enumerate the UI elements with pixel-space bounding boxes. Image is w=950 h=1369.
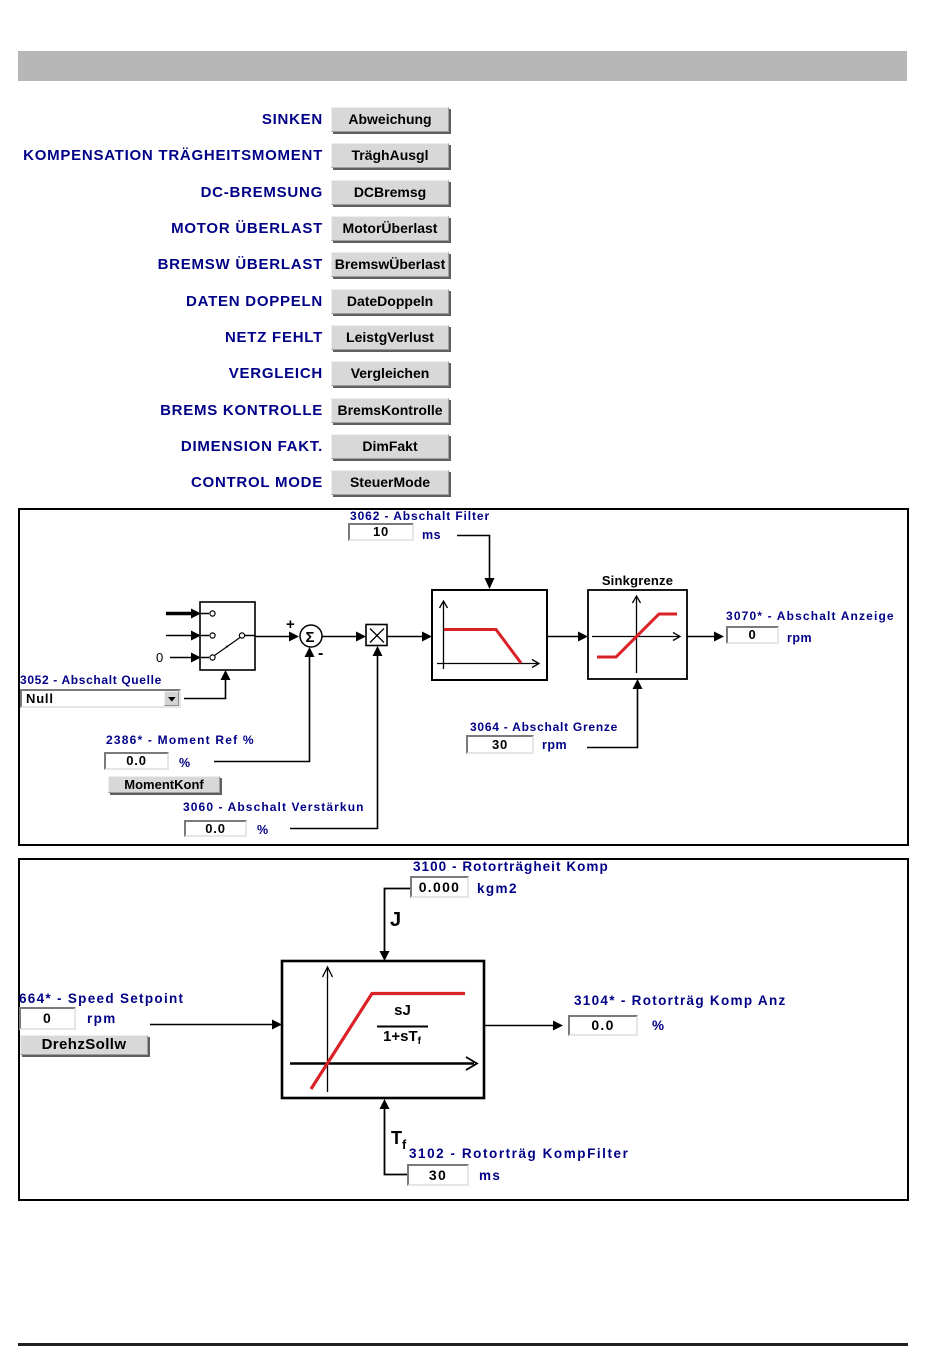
label 3064 - Abschalt Grenze xyxy=(470,720,618,734)
comp v axis xyxy=(327,968,329,1092)
sink red limiter curve xyxy=(597,614,677,657)
unit kgm2 xyxy=(477,881,518,896)
diagram box 2 frame xyxy=(18,858,909,1201)
row label CONTROL MODE xyxy=(0,470,323,495)
row label BREMSW ÜBERLAST xyxy=(0,252,323,277)
field 3062 value 10 xyxy=(348,523,414,541)
switch output stub xyxy=(245,635,256,637)
row label SINKEN xyxy=(0,107,323,132)
label J xyxy=(390,909,401,932)
row label BREMS KONTROLLE xyxy=(0,398,323,423)
unit rpm xyxy=(542,738,567,752)
unit % xyxy=(652,1018,665,1033)
button DrehzSollw xyxy=(20,1035,148,1055)
filter v axis xyxy=(443,602,445,669)
button BremswÜberlast xyxy=(331,252,449,277)
row label NETZ FEHLT xyxy=(0,325,323,350)
field 2386 value 0.0 xyxy=(104,752,169,770)
switch block S1 xyxy=(200,602,255,670)
label 3062 - Abschalt Filter xyxy=(350,509,490,523)
button BremsKontrolle xyxy=(331,398,449,423)
wire 664 speed setpoint to comp block xyxy=(150,1024,272,1026)
unit ms xyxy=(479,1168,501,1183)
wire 3100 J to comp block top xyxy=(385,889,411,958)
unit ms xyxy=(422,528,441,542)
formula sJ / (1+sTf) xyxy=(377,1002,428,1019)
wire comp block to 3104 output xyxy=(484,1025,553,1027)
wire multiplier to filter xyxy=(387,636,422,638)
switch input 1 contact xyxy=(210,611,215,616)
wire 3064 to sink block bottom xyxy=(587,683,638,748)
switch input 2 contact xyxy=(210,633,215,638)
unit rpm xyxy=(87,1011,117,1026)
button Abweichung xyxy=(331,107,449,132)
label 664* - Speed Setpoint xyxy=(19,991,184,1006)
field 3070 value 0 xyxy=(726,626,779,644)
row label KOMPENSATION TRÄGHEITSMOMENT xyxy=(0,143,323,168)
comp block F3 xyxy=(282,961,484,1098)
label 3100 - Rotorträgheit Komp xyxy=(413,859,609,874)
label 3104* - Rotorträg Komp Anz xyxy=(574,993,787,1008)
switch input 3 contact xyxy=(210,655,215,660)
unit rpm xyxy=(787,631,812,645)
comp h axis xyxy=(290,1062,474,1065)
svg-text:-: - xyxy=(318,645,323,662)
switch input 3 wire xyxy=(170,657,191,659)
combobox dropdown button xyxy=(164,691,179,706)
switch input 2 wire xyxy=(166,635,191,637)
filter block F1 xyxy=(432,590,547,680)
summer U1 xyxy=(300,625,322,647)
row label VERGLEICH xyxy=(0,361,323,386)
field 3060 value 0.0 xyxy=(184,820,247,837)
svg-text:0: 0 xyxy=(156,650,163,665)
wire 3102 Tf to comp block bottom xyxy=(385,1102,408,1175)
wire 3062 ms to filter block xyxy=(457,536,490,587)
label 3060 - Abschalt Verstärkun xyxy=(183,800,365,814)
svg-text:+: + xyxy=(286,616,295,633)
label 2386* - Moment Ref % xyxy=(106,733,255,747)
field 3100 value 0.000 xyxy=(410,876,469,898)
sink h axis xyxy=(592,636,679,638)
sink v axis xyxy=(636,596,638,673)
unit % xyxy=(179,756,191,770)
button DimFakt xyxy=(331,434,449,459)
button SteuerMode xyxy=(331,470,449,495)
field 3102 value 30 xyxy=(407,1164,469,1186)
wire 3060 to multiplier bottom xyxy=(290,650,378,829)
row label DATEN DOPPELN xyxy=(0,289,323,314)
label 3070* - Abschalt Anzeige xyxy=(726,609,895,623)
switch lever midpoint tick xyxy=(226,646,228,648)
wire filter to sink block xyxy=(547,636,578,638)
unit % xyxy=(257,823,269,837)
switch input 1 wire (bold) xyxy=(166,612,191,615)
svg-text:Σ: Σ xyxy=(306,629,315,646)
switch output contact xyxy=(239,633,244,638)
arrowhead into filter top xyxy=(485,578,495,589)
combobox 3052 Null xyxy=(20,689,181,708)
field 3064 value 30 xyxy=(466,735,534,754)
formula fraction bar xyxy=(377,1026,428,1028)
label 3102 - Rotorträg KompFilter xyxy=(409,1146,629,1161)
row label DIMENSION FAKT. xyxy=(0,434,323,459)
label Sinkgrenze xyxy=(588,573,687,588)
label 3052 - Abschalt Quelle xyxy=(20,673,162,687)
button MomentKonf xyxy=(108,776,220,793)
filter h axis xyxy=(437,663,538,665)
header bar xyxy=(18,51,907,81)
button MotorÜberlast xyxy=(331,216,449,241)
button LeistgVerlust xyxy=(331,325,449,350)
wire switch to sum xyxy=(255,636,289,638)
field 3104 value 0.0 xyxy=(568,1015,638,1036)
wire 3052 combobox to switch xyxy=(184,674,226,699)
bottom rule xyxy=(18,1343,908,1346)
multiplier X1 xyxy=(366,625,387,646)
wire sink to 3070 output xyxy=(687,636,714,638)
comp red curve xyxy=(311,994,465,1090)
label Tf xyxy=(391,1128,406,1152)
button Vergleichen xyxy=(331,361,449,386)
button DateDoppeln xyxy=(331,289,449,314)
row label MOTOR ÜBERLAST xyxy=(0,216,323,241)
sink limit block F2 xyxy=(588,590,687,679)
button DCBremsg xyxy=(331,180,449,205)
filter red response curve xyxy=(444,630,521,664)
button TräghAusgl xyxy=(331,143,449,168)
switch lever xyxy=(215,638,241,656)
wire sum to multiplier xyxy=(322,636,356,638)
combobox arrow glyph xyxy=(167,696,177,703)
row label DC-BREMSUNG xyxy=(0,180,323,205)
field 664 value 0 xyxy=(19,1007,76,1030)
wire 2386 to sum minus input xyxy=(214,651,310,762)
diagram box 1 frame xyxy=(18,508,909,846)
